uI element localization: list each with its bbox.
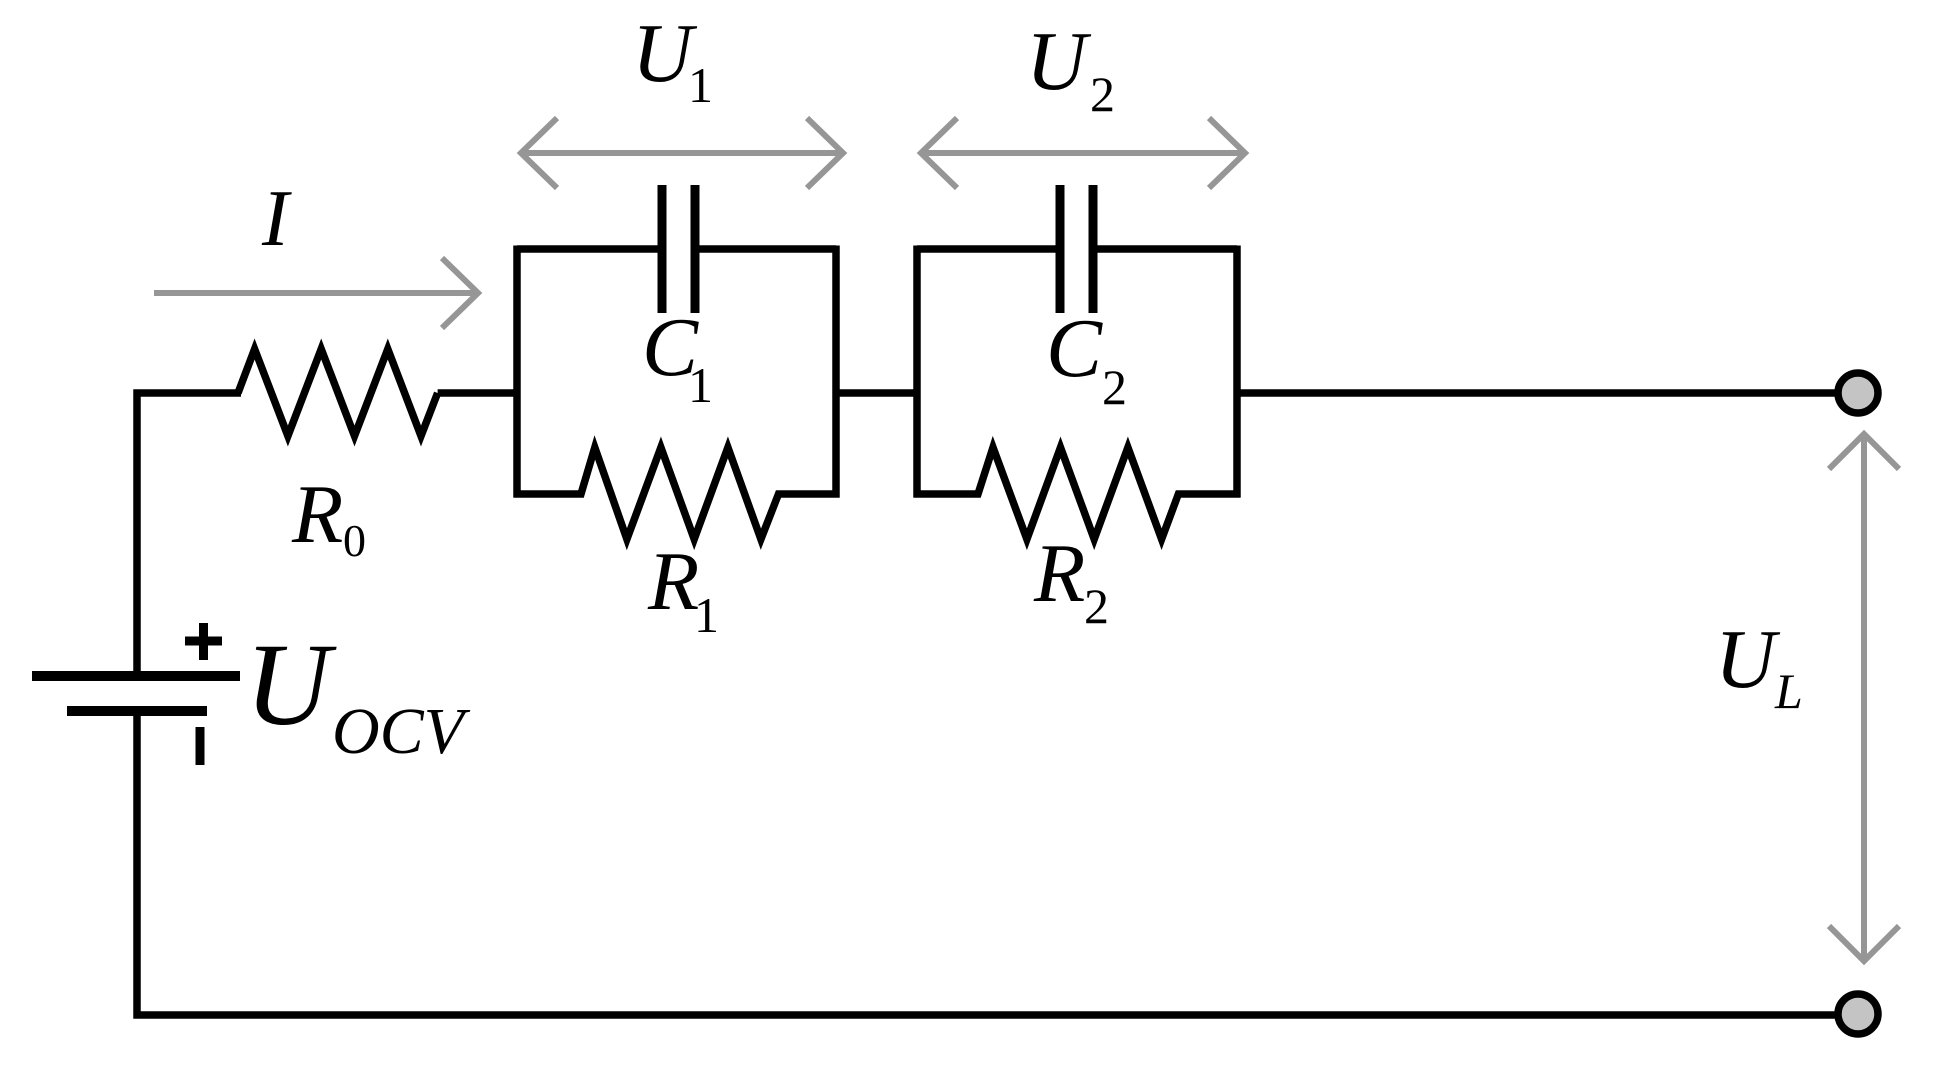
wire (box2 to right terminal) [1237, 389, 1840, 397]
svg-text:U: U [245, 619, 337, 750]
RC box 2 (R2 parallel C2) [914, 246, 1241, 540]
RC box 1 (R1 parallel C1) [514, 246, 840, 540]
svg-text:2: 2 [1084, 578, 1109, 634]
battery long plate (+) [32, 671, 240, 681]
wire (R0 to box1) [438, 389, 517, 397]
svg-text:C: C [1046, 302, 1103, 395]
svg-text:1: 1 [694, 587, 719, 643]
node: bottom-right terminal [1838, 994, 1878, 1034]
battery short plate (-) [67, 706, 207, 716]
wire (box1 to box2) [836, 389, 917, 397]
minus sign [196, 727, 205, 765]
box1 left edge [513, 246, 521, 498]
plus sign [185, 623, 222, 660]
battery U_OCV [32, 393, 1840, 1015]
voltage arrow U2 (double-headed) [921, 118, 1245, 188]
svg-text:L: L [1774, 663, 1803, 719]
svg-text:R: R [291, 468, 343, 561]
svg-text:I: I [261, 175, 292, 263]
box2 left edge [913, 246, 921, 498]
box2 right edge [1233, 246, 1241, 498]
svg-text:U: U [1026, 15, 1092, 108]
svg-text:1: 1 [688, 357, 713, 413]
current arrow I [154, 258, 478, 328]
box1 right edge [832, 246, 840, 498]
wire (battery bottom lead down to bottom rail and along it) [137, 708, 1840, 1015]
resistor R1 (bottom edge of box1) [514, 447, 840, 539]
capacitor C1 plates [662, 185, 695, 313]
voltage arrow UL (double-headed, vertical) [1829, 434, 1899, 961]
box2 top edge [917, 245, 1237, 253]
resistor R0 [238, 349, 438, 436]
svg-text:R: R [1033, 527, 1085, 620]
box1 top edge [517, 245, 836, 253]
svg-text:R: R [647, 535, 699, 628]
wire (battery top lead up to top-left corner, right to R0) [137, 393, 241, 679]
voltage arrow U1 (double-headed) [521, 118, 843, 188]
capacitor C2 plates [1060, 185, 1093, 313]
svg-text:2: 2 [1090, 66, 1115, 122]
svg-text:OCV: OCV [332, 695, 471, 768]
svg-text:0: 0 [343, 515, 366, 566]
svg-text:U: U [1715, 613, 1781, 706]
resistor R2 (bottom edge of box2) [914, 447, 1241, 539]
node: top-right terminal [1838, 373, 1878, 413]
svg-text:2: 2 [1102, 359, 1127, 415]
svg-text:1: 1 [688, 57, 713, 113]
